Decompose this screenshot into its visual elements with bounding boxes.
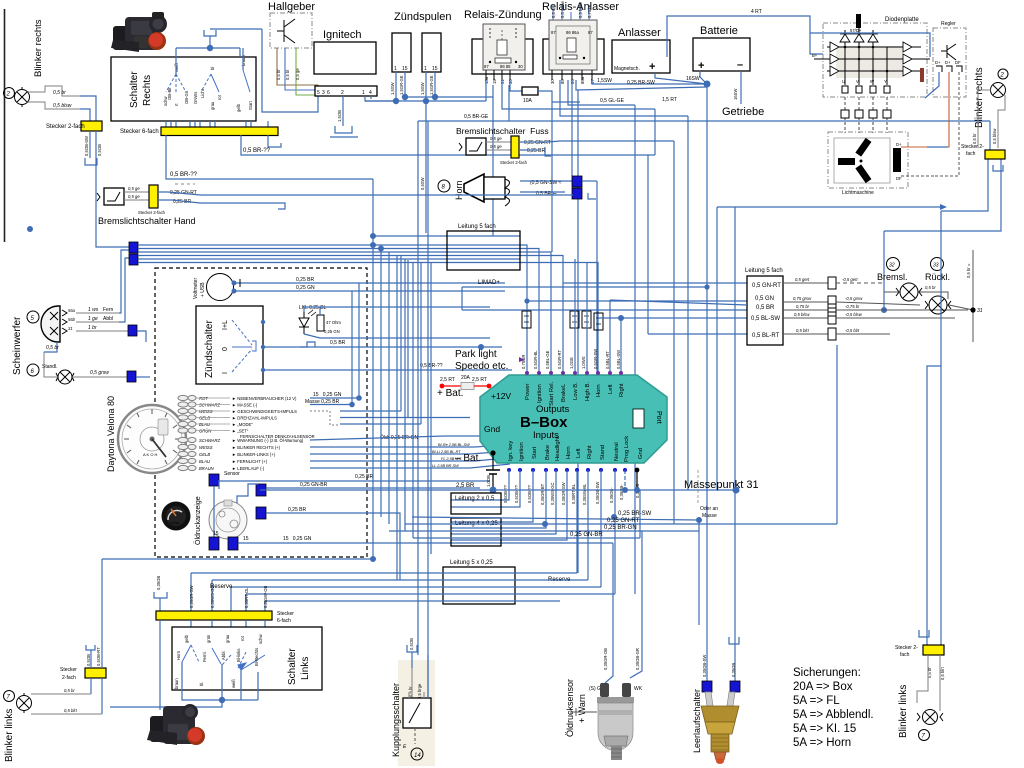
wire connector down a	[90, 678, 92, 694]
svg-text:– Bat.: – Bat.	[455, 453, 481, 464]
svg-text:6-fach: 6-fach	[277, 618, 291, 624]
svg-text:0,75 br: 0,75 br	[796, 304, 810, 309]
ground oil sensor	[571, 708, 597, 716]
alternator windings	[838, 138, 871, 183]
wire bundle 6 to B-Box Horn	[138, 263, 598, 373]
wire 0,25BR-SW vertical	[577, 90, 579, 573]
wire 0,5GN-RT to cable	[563, 282, 747, 284]
fuse list text	[793, 667, 874, 749]
svg-text:Gnd: Gnd	[484, 424, 500, 434]
svg-text:bl.: bl.	[199, 682, 204, 686]
wire 0,25BR sensor lower	[266, 513, 400, 580]
anlasser relay top wires	[553, 5, 589, 20]
lamp brake light	[896, 283, 922, 301]
wire switch links c	[240, 670, 242, 700]
svg-text:0,5 brsw: 0,5 brsw	[578, 1, 583, 18]
anlasser relay pins	[552, 70, 592, 80]
fuse 20A	[461, 383, 474, 390]
wire lamp to connector	[978, 90, 991, 148]
wire LIMA D+	[462, 286, 706, 288]
svg-text:1: 1	[394, 66, 397, 72]
lamp blinker rechts	[15, 87, 30, 107]
svg-text:+ Warn: + Warn	[577, 694, 587, 723]
connector neutral 2	[730, 681, 740, 692]
bottom wire labels	[503, 482, 640, 505]
svg-text:0,25 BR: 0,25 BR	[296, 277, 314, 283]
relay zündung pin wires	[485, 80, 487, 101]
wire bar to switch 2	[211, 620, 213, 648]
svg-text:► FERNLICHT (+): ► FERNLICHT (+)	[232, 459, 268, 464]
wire bar to switch 4	[245, 620, 247, 652]
wire 0,5BR ignition	[263, 346, 502, 348]
svg-text:SCHWARZ: SCHWARZ	[199, 438, 221, 443]
wire vertical bundle h	[420, 263, 422, 425]
wire brake input	[451, 470, 546, 528]
svg-text:0,5 brge: 0,5 brge	[417, 683, 422, 699]
svg-text:0,35OB-SW: 0,35OB-SW	[595, 482, 600, 504]
svg-text:gelb: gelb	[184, 634, 189, 643]
wire 2,5RT battery plus	[440, 384, 445, 389]
coil 2	[422, 33, 441, 72]
circled 2 right	[998, 69, 1008, 79]
wire oder an masse dashed	[697, 470, 699, 505]
svg-text:-0,5 blsw: -0,5 blsw	[845, 312, 863, 317]
svg-text:Sensor: Sensor	[224, 471, 240, 477]
wire clutch stub	[411, 652, 413, 668]
svg-text:0,5OB: 0,5OB	[86, 654, 91, 666]
top wire labels	[521, 349, 621, 369]
B-Box Gnd pin	[490, 450, 495, 455]
wire ignition input	[451, 470, 520, 507]
circled 2	[4, 88, 15, 99]
wire blinker links feed	[101, 559, 103, 668]
svg-text:Leitung 5 x 0,25: Leitung 5 x 0,25	[450, 560, 493, 566]
svg-text:Power: Power	[525, 383, 531, 400]
top pin labels inside	[525, 381, 625, 406]
wire switch links b	[221, 664, 223, 700]
wires below top bar	[166, 135, 373, 179]
svg-text:Oder an: Oder an	[700, 506, 718, 512]
bracket	[85, 158, 97, 165]
svg-text:15 0,25 GN: 15 0,25 GN	[283, 536, 312, 542]
wire 0,5BL-RT to cable	[648, 333, 747, 335]
svg-text:Y: Y	[884, 79, 887, 84]
alternator stator frame	[834, 138, 890, 183]
svg-text:Sicherungen:: Sicherungen:	[793, 667, 861, 679]
wire lamp top	[28, 86, 80, 96]
svg-text:Massepunkt 31: Massepunkt 31	[684, 479, 759, 491]
wire hand switch a	[124, 191, 149, 193]
svg-text:Stecker 2-: Stecker 2-	[961, 144, 984, 150]
headlight E1	[41, 306, 60, 342]
svg-text:5: 5	[317, 90, 320, 96]
diodes left column	[830, 42, 839, 76]
svg-text:0,5OB-RT: 0,5OB-RT	[96, 647, 101, 666]
wire 0,35OB stub	[159, 598, 161, 611]
node blinker links	[370, 556, 376, 562]
voltmeter P1	[207, 274, 234, 301]
svg-text:D+: D+	[896, 142, 902, 147]
svg-text:0,25 GN: 0,25 GN	[324, 329, 340, 334]
wire 0,25BR hand	[158, 200, 278, 203]
svg-text:0,5 BR ⊢: 0,5 BR ⊢	[536, 190, 557, 197]
svg-text:LIMAD+: LIMAD+	[478, 280, 500, 286]
svg-text:2: 2	[341, 90, 344, 96]
svg-text:BRAUN: BRAUN	[199, 466, 215, 471]
svg-text:Prog Lock: Prog Lock	[624, 436, 630, 462]
lamp tail light	[925, 296, 951, 314]
svg-text:0,5 blrt: 0,5 blrt	[796, 328, 810, 333]
wire hand switch b	[124, 199, 149, 201]
wire y97 to relay pin15	[405, 85, 493, 97]
10A fuse	[522, 87, 538, 95]
svg-text:Blinker links: Blinker links	[898, 685, 909, 738]
wires rear lamp side	[836, 283, 968, 334]
svg-text:0,75GR: 0,75GR	[521, 355, 526, 369]
svg-text:gelb: gelb	[236, 103, 241, 112]
node 0,25GN-RT	[542, 521, 548, 527]
wire 1,5RT	[560, 80, 688, 116]
wire right connector pin 1	[941, 159, 988, 211]
B-Box input pins	[507, 468, 627, 472]
switch photo bottom	[150, 716, 178, 742]
svg-text:Park light: Park light	[455, 349, 497, 360]
svg-text:0,35SW-OB: 0,35SW-OB	[263, 586, 268, 608]
wire diode D+ rail	[840, 33, 878, 35]
wire ign key input	[451, 470, 509, 500]
svg-text:0,25 GN-BR: 0,25 GN-BR	[570, 532, 603, 538]
svg-text:87: 87	[551, 30, 556, 35]
svg-text:Rückl.: Rückl.	[925, 272, 950, 282]
lamp blinker links left	[17, 693, 32, 713]
clutch switch S6 box	[403, 698, 431, 728]
wire DF alternator	[901, 175, 935, 177]
svg-text:85: 85	[560, 79, 565, 84]
svg-text:0,5 grsw: 0,5 grsw	[90, 370, 109, 376]
svg-text:57/D+: 57/D+	[850, 28, 862, 33]
svg-text:Rechts: Rechts	[142, 75, 153, 106]
svg-text:Blinker rechts: Blinker rechts	[974, 67, 985, 128]
svg-text:grün: grün	[206, 634, 211, 643]
connector horn minus	[572, 188, 582, 199]
svg-text:0,35GR-OB: 0,35GR-OB	[603, 648, 608, 670]
wire 1ws Fern	[76, 312, 119, 314]
wire schalter links row 2	[212, 579, 588, 581]
wire LKL 0,25BL	[304, 307, 490, 312]
svg-text:Leitung 5 fach: Leitung 5 fach	[458, 224, 496, 230]
svg-text:0,5 GN: 0,5 GN	[755, 296, 774, 302]
resistor 47 Ohm	[317, 315, 324, 331]
ignitech connector strip	[315, 86, 377, 96]
wire stub to right connector	[989, 121, 991, 150]
svg-text:-0,5 grsw: -0,5 grsw	[845, 296, 863, 301]
svg-text:Schalter: Schalter	[129, 71, 140, 108]
svg-text:Bl-Rechts: Bl-Rechts	[254, 648, 259, 666]
svg-text:16SW: 16SW	[733, 89, 738, 100]
wire right connector pin 2	[884, 159, 1001, 231]
svg-text:GELB: GELB	[199, 416, 210, 421]
schalter rechts box	[111, 57, 256, 121]
wire 0,25BR foot brake	[519, 149, 540, 151]
svg-text:0,5GR-SW: 0,5GR-SW	[593, 349, 598, 369]
svg-text:grau: grau	[225, 634, 230, 643]
wire neutral input	[614, 470, 616, 594]
svg-text:1,5GR-GE: 1,5GR-GE	[399, 75, 404, 95]
svg-text:Fernl.: Fernl.	[202, 651, 207, 662]
svg-text:Zündspulen: Zündspulen	[394, 11, 452, 23]
svg-text:86 86a: 86 86a	[566, 30, 579, 35]
wire standlicht stub	[136, 376, 150, 378]
svg-text:1,0OB: 1,0OB	[486, 475, 491, 487]
node 0,25BR-SW	[611, 514, 617, 520]
svg-text:OB-Gn: OB-Gn	[184, 90, 189, 104]
svg-text:BLAU: BLAU	[199, 459, 211, 464]
svg-text:D+: D+	[935, 60, 941, 65]
wire relay 86 to horn	[571, 80, 573, 176]
svg-text:0,5OB-SW: 0,5OB-SW	[84, 136, 89, 156]
wire start input	[451, 470, 533, 522]
wire 0,5br blinker links	[917, 655, 928, 703]
wire long down to bundle	[96, 131, 129, 247]
wire vertical to ground point	[716, 207, 718, 490]
wire clutch blue	[427, 655, 429, 698]
wire row3 to bar	[230, 587, 232, 611]
svg-text:0,25 GN-RT: 0,25 GN-RT	[524, 140, 551, 146]
svg-text:Lichtmaschine: Lichtmaschine	[842, 190, 874, 196]
wire 0,5BR to cable	[462, 309, 747, 311]
svg-text:31: 31	[68, 326, 73, 331]
svg-text:grau: grau	[210, 101, 215, 110]
svg-text:47 Ohm: 47 Ohm	[326, 320, 341, 325]
wire vertical bundle f	[412, 263, 414, 539]
battery G1 box	[693, 38, 750, 71]
svg-text:87: 87	[484, 64, 489, 69]
svg-text:Zündschalter: Zündschalter	[204, 320, 215, 378]
svg-text:Stecker 6-fach: Stecker 6-fach	[120, 129, 159, 135]
svg-text:0,75 grsw: 0,75 grsw	[793, 296, 812, 301]
wire to B-Box High B	[586, 263, 588, 373]
svg-text:► BLINKER RECHTS (+): ► BLINKER RECHTS (+)	[232, 445, 281, 450]
svg-text:2,5 RT: 2,5 RT	[440, 377, 455, 383]
svg-text:15: 15	[432, 66, 438, 72]
connector bundle 1	[129, 242, 138, 253]
svg-text:Leerlaufschalter: Leerlaufschalter	[692, 689, 702, 753]
connector sensor 1	[209, 474, 219, 486]
connector standlicht	[127, 371, 136, 382]
svg-text:schw.: schw.	[258, 633, 263, 644]
wire to B-Box Right	[620, 318, 622, 372]
oil gauge sender symbol	[209, 501, 247, 539]
svg-text:0,5 br: 0,5 br	[64, 688, 75, 693]
svg-text:Bremslichtschalter Fuss: Bremslichtschalter Fuss	[456, 126, 549, 136]
svg-text:► NEBENVERBRAUCHER (12 V): ► NEBENVERBRAUCHER (12 V)	[232, 396, 297, 401]
svg-text:0,35OB: 0,35OB	[156, 576, 161, 590]
svg-text:Kupplungsschalter: Kupplungsschalter	[391, 683, 401, 757]
svg-text:15 0,25 GN: 15 0,25 GN	[313, 392, 342, 398]
ground ignitech	[335, 126, 352, 133]
wire vertical bundle a	[372, 245, 374, 559]
svg-text:10A: 10A	[523, 98, 533, 104]
svg-text:I: I	[222, 372, 229, 374]
svg-text:braun: braun	[174, 678, 179, 689]
B+ red bar right	[921, 58, 930, 60]
svg-text:-0,5 blrt: -0,5 blrt	[845, 328, 860, 333]
svg-text:Getriebe: Getriebe	[722, 106, 764, 118]
wire left input	[576, 470, 578, 573]
svg-text:Abbl.: Abbl.	[221, 650, 226, 660]
node power output	[524, 298, 529, 303]
node bundle junction 2	[378, 246, 384, 252]
horn H1 body	[464, 174, 484, 202]
svg-text:Fern: Fern	[103, 307, 114, 313]
wire 0,5br lamp left	[31, 693, 91, 695]
connector Stecker 2-fach hand	[149, 185, 158, 208]
wire tacho 12V	[310, 397, 359, 399]
svg-text:oil bar: oil bar	[170, 521, 180, 525]
node ignition switch 0	[261, 345, 265, 349]
svg-text:0,5 blsw: 0,5 blsw	[794, 312, 810, 317]
svg-text:Magnetsch.: Magnetsch.	[614, 66, 640, 72]
svg-text:0,5 BL-RT: 0,5 BL-RT	[752, 333, 780, 339]
svg-text:0,5SW: 0,5SW	[420, 177, 425, 190]
bracket neutral switch	[729, 637, 739, 644]
svg-text:-0,5 gert: -0,5 gert	[842, 277, 858, 282]
circled 32	[887, 258, 900, 271]
svg-text:ROT: ROT	[199, 396, 208, 401]
svg-text:0,5 br =: 0,5 br =	[966, 263, 971, 278]
svg-text:Port: Port	[655, 411, 662, 424]
wire to bottom right blinker	[927, 366, 941, 632]
svg-text:0,5 blrt: 0,5 blrt	[64, 708, 78, 713]
wire	[80, 109, 90, 121]
node switch links	[219, 697, 225, 703]
svg-text:0,5 ge: 0,5 ge	[128, 186, 140, 191]
svg-text:2,5 RT: 2,5 RT	[472, 377, 487, 383]
svg-text:Start: Start	[532, 446, 538, 459]
connector sensor 2	[256, 484, 266, 496]
switch photo top	[111, 12, 167, 52]
wire 0,25BR-SW	[576, 80, 707, 90]
inline connectors UVWY	[841, 110, 891, 118]
brake light switch hand S1	[104, 188, 124, 205]
wire prog lock dashed	[624, 470, 626, 490]
svg-text:0,5 BR: 0,5 BR	[330, 340, 346, 346]
svg-text:15: 15	[402, 66, 408, 72]
svg-text:Speedo etc.: Speedo etc.	[455, 361, 508, 372]
svg-text:0,5 blrt: 0,5 blrt	[940, 666, 945, 680]
clutch switch photo area	[398, 660, 435, 766]
wire hand brake 0,25GN-RT	[200, 194, 573, 196]
svg-text:U: U	[842, 79, 845, 84]
svg-text:Start: Start	[248, 100, 253, 110]
svg-text:1,5SW: 1,5SW	[390, 82, 395, 95]
svg-text:0,5OB: 0,5OB	[97, 144, 102, 156]
wire y101	[365, 100, 426, 102]
stecker 6-fach top yellow bar	[161, 127, 278, 136]
wire tacho masse	[310, 404, 352, 406]
svg-text:Neutral: Neutral	[614, 442, 620, 461]
svg-text:0,25 GN-BR: 0,25 GN-BR	[300, 482, 328, 488]
svg-text:0,5 ge: 0,5 ge	[490, 136, 502, 141]
svg-text:GELB: GELB	[199, 452, 210, 457]
wire battery plus vertical to neutral switch	[706, 84, 708, 681]
svg-text:► MASSE (-): ► MASSE (-)	[232, 403, 258, 408]
circled 6	[27, 364, 39, 376]
svg-text:0,5GR-RT: 0,5GR-RT	[557, 350, 562, 369]
wire 2,5BR ground bus	[260, 489, 736, 491]
bottom switch photo	[147, 704, 205, 745]
wire 4RT starter to diode plate B+	[667, 16, 823, 57]
wire 0,5GL-GE vertical	[634, 105, 636, 594]
svg-text:GNWs: GNWs	[193, 92, 198, 104]
svg-text:Horn: Horn	[596, 384, 602, 397]
cable Leitung 4x0,25	[451, 518, 501, 546]
svg-text:0,5 br: 0,5 br	[46, 345, 59, 351]
svg-text:D+: D+	[945, 60, 951, 65]
svg-text:Left: Left	[608, 384, 614, 394]
svg-text:Stecker 2-: Stecker 2-	[895, 645, 918, 651]
wire D+ alternator	[901, 146, 927, 148]
wire foot switch to connector	[486, 141, 511, 143]
svg-text:Right: Right	[587, 445, 593, 459]
wire relay 30 vertical	[551, 102, 553, 252]
node bundle junction 1	[370, 242, 376, 248]
connector neutral 1	[702, 681, 712, 692]
wire 0,5BR-?? ignition	[263, 369, 512, 371]
wire 16SW starter to battery	[655, 73, 707, 84]
svg-text:0,35OB-GR: 0,35OB-GR	[635, 648, 640, 670]
svg-text:0,5 ge: 0,5 ge	[128, 194, 140, 199]
coil wires	[395, 72, 397, 101]
ground symbol B-Box	[486, 469, 500, 471]
terminal 57/D+	[856, 14, 861, 28]
svg-text:+: +	[698, 60, 704, 72]
svg-text:0,25 BR-GN: 0,25 BR-GN	[604, 525, 637, 531]
svg-text:4 RT: 4 RT	[751, 9, 762, 15]
B-Box U1 controller	[480, 375, 667, 463]
svg-text:14: 14	[414, 753, 421, 759]
svg-text:Diodenplatte: Diodenplatte	[885, 17, 919, 23]
svg-text:0,5 GN-RT: 0,5 GN-RT	[752, 283, 781, 289]
svg-text:Reserve: Reserve	[210, 584, 233, 590]
svg-text:+: +	[649, 61, 655, 73]
svg-text:Ignition: Ignition	[519, 442, 525, 461]
wire node 31 vertical	[972, 250, 974, 342]
svg-text:0,35OB-SW: 0,35OB-SW	[702, 655, 707, 677]
svg-text:Horn: Horn	[454, 180, 464, 200]
svg-text:Bl-links: Bl-links	[236, 649, 241, 663]
wire connector down b	[101, 678, 103, 714]
bracket 0,25BR	[278, 203, 285, 209]
wire relay 31 bend	[654, 109, 656, 155]
svg-text:2: 2	[1000, 73, 1005, 79]
wire 0,5BR-GE horizontal	[418, 120, 990, 122]
svg-text:Daytona Velona 80: Daytona Velona 80	[106, 396, 116, 472]
connector Stecker 2-fach foot	[511, 136, 519, 158]
switch symbols inside	[166, 70, 250, 92]
svg-text:86a: 86a	[580, 76, 585, 84]
svg-text:5A => KI. 15: 5A => KI. 15	[793, 723, 856, 735]
wire stub to connector	[90, 650, 92, 668]
wire 16SW battery minus to gearbox ground	[740, 71, 742, 104]
svg-text:0,5 br: 0,5 br	[276, 69, 281, 80]
node battery plus junction	[704, 81, 711, 88]
wire pins 1,4	[365, 96, 394, 101]
wire switch links to left	[110, 700, 222, 707]
svg-text:0,5 blsw: 0,5 blsw	[992, 128, 997, 144]
wire 0,35GR-OB oil sensor	[605, 543, 613, 683]
svg-text:Bremslichtschalter Hand: Bremslichtschalter Hand	[98, 216, 196, 226]
